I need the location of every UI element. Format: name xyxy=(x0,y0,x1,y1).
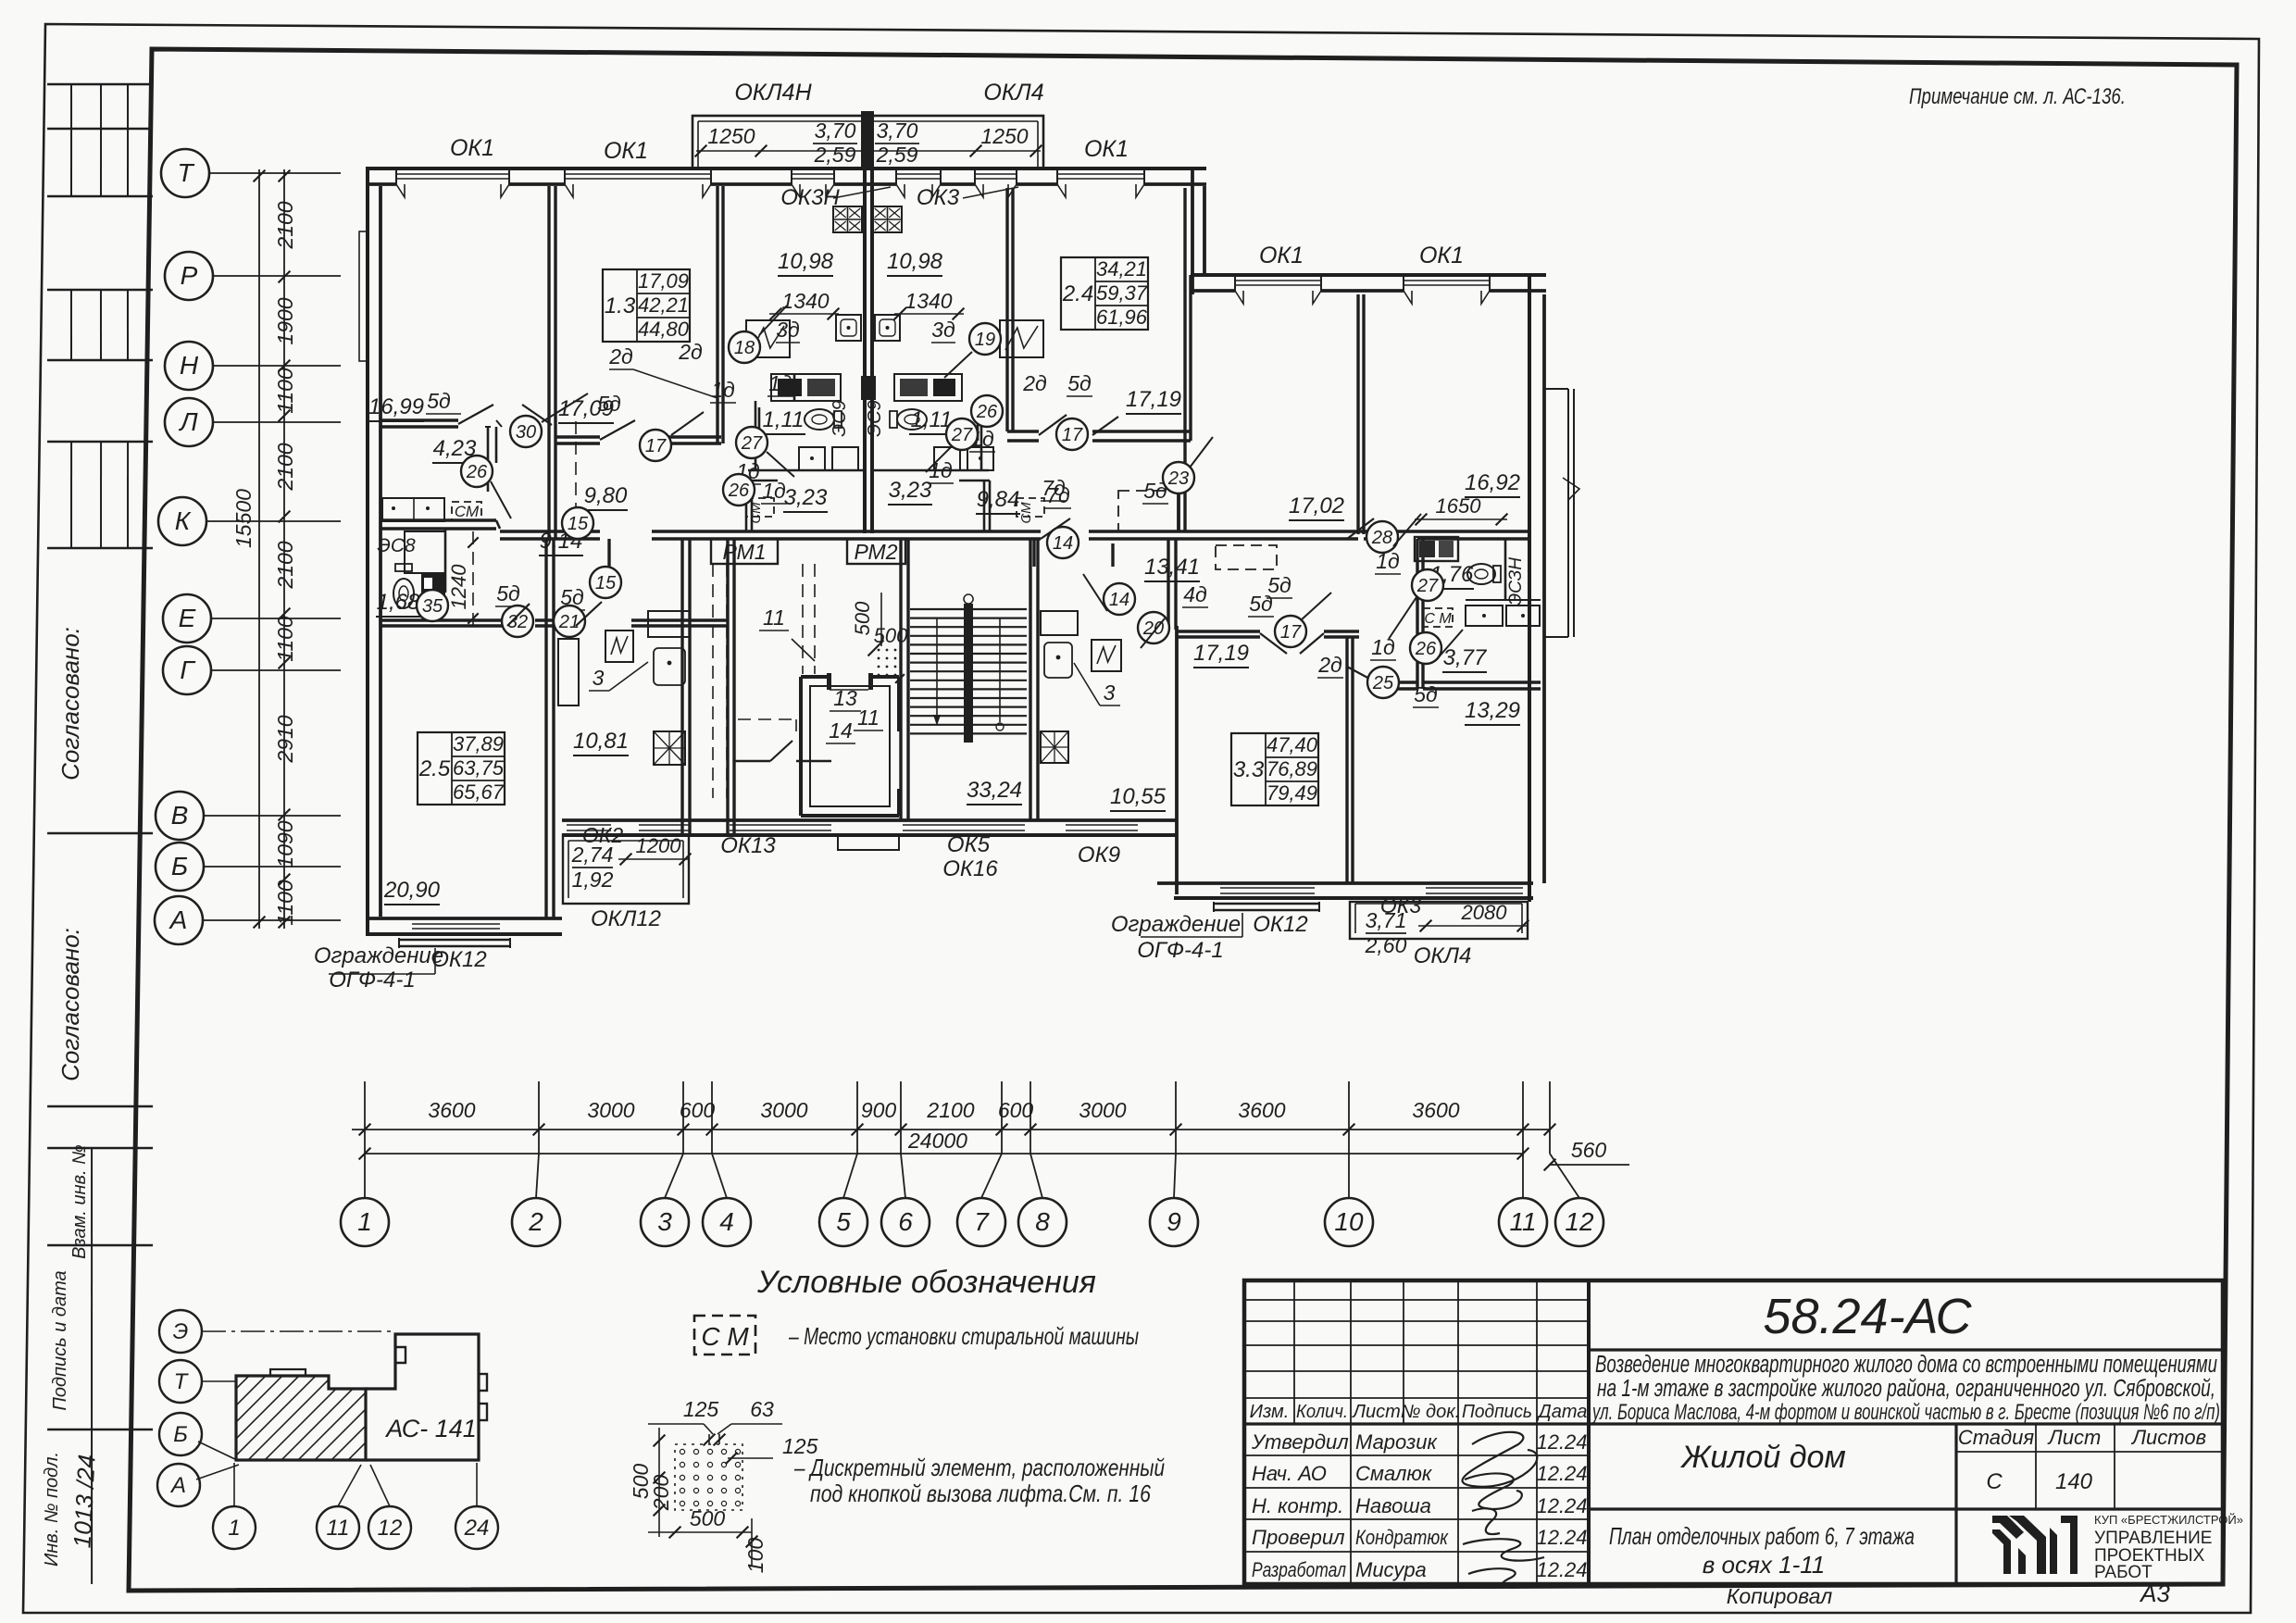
svg-text:3: 3 xyxy=(1104,680,1116,705)
СМ box center-right xyxy=(1017,498,1044,517)
svg-text:УПРАВЛЕНИЕ: УПРАВЛЕНИЕ xyxy=(2094,1529,2212,1548)
svg-text:В: В xyxy=(171,801,189,830)
svg-text:ОК9: ОК9 xyxy=(1078,843,1120,868)
СМ box left xyxy=(452,502,481,520)
svg-text:5д: 5д xyxy=(427,389,451,413)
svg-text:1340: 1340 xyxy=(905,289,952,313)
svg-text:1250: 1250 xyxy=(707,124,755,148)
circle mark 26 xyxy=(1410,632,1441,664)
svg-text:СМ: СМ xyxy=(748,502,764,524)
wall v1 xyxy=(547,186,550,539)
corridor wall lower xyxy=(380,618,507,621)
svg-text:12.24: 12.24 xyxy=(1536,1558,1587,1581)
kitchen counter row lower-left xyxy=(382,498,444,521)
svg-text:900: 900 xyxy=(861,1098,897,1122)
axis circle 5 xyxy=(819,1198,867,1246)
circle mark 28 xyxy=(1366,521,1398,553)
svg-text:30: 30 xyxy=(516,422,536,443)
svg-text:2100: 2100 xyxy=(273,443,297,491)
svg-text:3600: 3600 xyxy=(428,1098,475,1122)
svg-text:9: 9 xyxy=(1167,1207,1181,1236)
circle mark 15 xyxy=(562,507,593,539)
wall v3 (2.4 left) xyxy=(1005,188,1008,431)
svg-text:3,23: 3,23 xyxy=(889,478,932,503)
svg-text:500: 500 xyxy=(851,601,874,635)
axis circle 4 xyxy=(703,1198,751,1246)
svg-text:ЭС9: ЭС9 xyxy=(830,400,850,436)
svg-text:14: 14 xyxy=(1109,590,1129,610)
svg-text:3д: 3д xyxy=(931,318,955,342)
svg-text:2: 2 xyxy=(528,1207,543,1236)
svg-text:5: 5 xyxy=(836,1207,851,1236)
svg-text:1250: 1250 xyxy=(980,124,1028,148)
circle mark 26 xyxy=(461,456,493,487)
svg-text:500: 500 xyxy=(690,1506,726,1530)
legend washing machine symbol xyxy=(694,1316,755,1355)
svg-text:ОК1: ОК1 xyxy=(1259,243,1304,268)
svg-text:42,21: 42,21 xyxy=(638,293,689,317)
top exterior wall xyxy=(366,167,1206,170)
svg-text:3600: 3600 xyxy=(1412,1098,1459,1122)
axis circle Е xyxy=(163,594,211,643)
toilet ЭСЗН xyxy=(1467,564,1495,584)
svg-text:14: 14 xyxy=(829,718,853,743)
axis circle Т xyxy=(161,149,209,197)
axis circle 9 xyxy=(1150,1198,1198,1246)
svg-text:Р: Р xyxy=(181,261,198,290)
svg-text:24: 24 xyxy=(464,1516,490,1541)
svg-text:7: 7 xyxy=(974,1207,990,1236)
vestibule wall xyxy=(734,760,770,763)
bath lower cabinets xyxy=(799,447,825,470)
svg-text:1240: 1240 xyxy=(447,564,470,610)
wall v11 kitchen 10,55 right xyxy=(1167,539,1169,630)
svg-text:47,40: 47,40 xyxy=(1267,733,1318,756)
svg-text:3000: 3000 xyxy=(760,1098,807,1122)
axis circle 11 xyxy=(1499,1198,1547,1246)
wall v10 stairwell right xyxy=(1029,539,1031,820)
vent blocks xyxy=(833,206,862,232)
svg-text:– Дискретный элемент, располож: – Дискретный элемент, расположенный xyxy=(793,1454,1165,1481)
svg-text:С М: С М xyxy=(1424,611,1452,627)
svg-text:1,68: 1,68 xyxy=(377,590,420,615)
svg-text:600: 600 xyxy=(680,1098,716,1122)
area table 2.4 xyxy=(1061,257,1148,330)
wall h2 (17,09 bottom) xyxy=(555,435,600,438)
svg-text:С: С xyxy=(1986,1469,2003,1494)
svg-text:А3: А3 xyxy=(2139,1579,2170,1607)
staircase treads xyxy=(910,608,1027,610)
dim 1250 right xyxy=(870,150,1041,152)
left exterior wall xyxy=(366,167,369,935)
svg-text:1200: 1200 xyxy=(636,834,682,857)
middle bottom exterior wall xyxy=(562,818,1176,822)
svg-text:16,99: 16,99 xyxy=(368,394,424,419)
axis circle В xyxy=(156,792,204,840)
axis circle Л xyxy=(165,398,213,446)
circle mark 26 xyxy=(971,395,1003,427)
circle mark 17 xyxy=(1056,418,1088,450)
svg-text:1650: 1650 xyxy=(1436,494,1482,518)
central wall xyxy=(863,169,867,533)
svg-text:№ док.: № док. xyxy=(1401,1402,1460,1422)
svg-text:58.24-АС: 58.24-АС xyxy=(1763,1289,1972,1344)
svg-text:9,84: 9,84 xyxy=(977,487,1020,512)
circle mark 26 xyxy=(723,474,755,506)
svg-text:12.24: 12.24 xyxy=(1536,1526,1587,1549)
svg-text:1: 1 xyxy=(228,1516,240,1541)
area table 1.3 xyxy=(603,269,690,342)
circle mark 32 xyxy=(502,606,533,637)
svg-text:7д: 7д xyxy=(1046,483,1070,507)
svg-text:18: 18 xyxy=(734,338,755,358)
left dimension chain xyxy=(283,169,285,929)
dashed rect under 23 xyxy=(1118,491,1179,531)
bottom-left exterior wall xyxy=(366,917,562,920)
bath partitions center xyxy=(755,401,757,470)
svg-text:63,75: 63,75 xyxy=(453,756,505,780)
key axis circle 11 xyxy=(317,1506,359,1549)
circle mark 17 xyxy=(1275,616,1306,647)
svg-text:3,23: 3,23 xyxy=(784,485,828,510)
door 5д h1 xyxy=(458,405,493,424)
svg-text:ЭС9: ЭС9 xyxy=(865,400,885,436)
svg-text:3600: 3600 xyxy=(1238,1098,1285,1122)
svg-text:125: 125 xyxy=(683,1397,719,1421)
axis circle 8 xyxy=(1018,1198,1067,1246)
circle mark 23 xyxy=(1163,462,1194,493)
svg-text:А: А xyxy=(168,905,188,934)
area table 2.5 xyxy=(418,732,505,805)
svg-text:2,74: 2,74 xyxy=(571,843,614,867)
svg-text:ЭС8: ЭС8 xyxy=(377,535,416,556)
svg-text:560: 560 xyxy=(1571,1138,1607,1162)
svg-text:на 1-м этаже в застройке жилог: на 1-м этаже в застройке жилого района, … xyxy=(1597,1376,2215,1402)
axis circle 1 xyxy=(341,1198,389,1246)
axis circle К xyxy=(158,497,206,545)
svg-text:4: 4 xyxy=(719,1207,734,1236)
svg-text:Условные обозначения: Условные обозначения xyxy=(756,1265,1096,1300)
svg-text:140: 140 xyxy=(2055,1469,2093,1494)
left margin table strip xyxy=(26,84,172,1584)
wall stub below h1 right xyxy=(495,427,498,463)
wall v13 (3.3 right) xyxy=(1345,637,1348,883)
svg-text:1100: 1100 xyxy=(273,368,297,414)
svg-text:1100: 1100 xyxy=(273,616,297,662)
svg-text:26: 26 xyxy=(728,481,750,501)
elevator door ticks xyxy=(827,673,831,690)
svg-text:под кнопкой вызова лифта.См. п: под кнопкой вызова лифта.См. п. 16 xyxy=(810,1479,1151,1507)
svg-text:2д: 2д xyxy=(608,344,633,368)
svg-text:3,77: 3,77 xyxy=(1443,645,1488,670)
svg-text:С М: С М xyxy=(701,1322,749,1351)
circle mark 18 xyxy=(729,331,760,363)
svg-text:500: 500 xyxy=(874,624,908,647)
svg-text:12: 12 xyxy=(1565,1207,1594,1236)
circle mark 27 xyxy=(946,418,978,450)
svg-text:17: 17 xyxy=(1280,622,1302,643)
svg-text:17,09: 17,09 xyxy=(638,269,689,293)
РМ1 box xyxy=(711,539,778,564)
circle mark 15 xyxy=(590,567,621,598)
circle mark 30 xyxy=(510,416,542,447)
wall v6 xyxy=(544,539,547,918)
svg-text:Е: Е xyxy=(179,604,196,632)
svg-text:27: 27 xyxy=(951,425,973,445)
staircase handrail xyxy=(964,604,973,743)
wall h1 (16,99 bottom) xyxy=(381,418,458,421)
svg-text:59,37: 59,37 xyxy=(1096,281,1148,305)
right bay edge xyxy=(1567,389,1569,637)
stove X left xyxy=(654,731,685,765)
svg-text:79,49: 79,49 xyxy=(1267,781,1317,805)
svg-text:5д: 5д xyxy=(496,581,520,606)
svg-text:ОК12: ОК12 xyxy=(1253,912,1308,937)
svg-text:ОК1: ОК1 xyxy=(450,135,494,161)
dotted 500x500 pad xyxy=(878,649,897,677)
svg-text:Ограждение: Ограждение xyxy=(1111,912,1241,937)
svg-text:3000: 3000 xyxy=(587,1098,634,1122)
svg-text:Согласовано:: Согласовано: xyxy=(56,928,84,1081)
svg-text:12: 12 xyxy=(378,1516,403,1541)
svg-text:Разработал: Разработал xyxy=(1252,1558,1346,1581)
svg-text:РМ2: РМ2 xyxy=(854,540,897,564)
svg-text:11: 11 xyxy=(857,705,880,730)
svg-text:2,59: 2,59 xyxy=(876,143,918,167)
svg-text:ОК16: ОК16 xyxy=(942,856,998,881)
svg-text:Г: Г xyxy=(180,655,195,684)
svg-text:ОКЛ4: ОКЛ4 xyxy=(983,80,1043,106)
svg-text:Стадия: Стадия xyxy=(1958,1426,2035,1449)
svg-text:1д: 1д xyxy=(762,479,786,503)
svg-text:11: 11 xyxy=(327,1516,350,1541)
svg-text:ОКЛ12: ОКЛ12 xyxy=(591,906,661,931)
dashed rect 17,02 xyxy=(1216,545,1277,569)
svg-text:1д: 1д xyxy=(768,371,792,395)
svg-text:3000: 3000 xyxy=(1079,1098,1126,1122)
svg-text:ул. Бориса Маслова, 4-м фортом: ул. Бориса Маслова, 4-м фортом и воинско… xyxy=(1591,1400,2220,1425)
axis circle 6 xyxy=(881,1198,930,1246)
svg-text:в осях 1-11: в осях 1-11 xyxy=(1703,1551,1825,1579)
balcony ОК12 right xyxy=(1214,903,1319,905)
axis circle Н xyxy=(165,342,213,390)
dashed line 1240 xyxy=(472,531,474,626)
svg-text:2.5: 2.5 xyxy=(418,756,451,781)
СМ room right top xyxy=(1416,539,1418,689)
washer dark right xyxy=(1415,537,1458,561)
svg-text:Кондратюк: Кондратюк xyxy=(1355,1526,1449,1549)
svg-text:Подпись и дата: Подпись и дата xyxy=(50,1270,70,1410)
svg-text:СМ: СМ xyxy=(1018,502,1034,524)
svg-text:25: 25 xyxy=(1372,673,1394,693)
svg-text:Т: Т xyxy=(174,1369,190,1394)
svg-text:Нач. АО: Нач. АО xyxy=(1252,1462,1327,1485)
svg-text:1900: 1900 xyxy=(273,297,297,344)
right exterior wall xyxy=(1528,273,1531,902)
balcony ОКЛ4Н/ОКЛ4 top xyxy=(693,116,1043,169)
area table 3.3 xyxy=(1231,733,1318,805)
key axis circle Э xyxy=(159,1310,202,1353)
svg-text:Б: Б xyxy=(173,1422,188,1447)
svg-text:5д: 5д xyxy=(597,392,621,416)
svg-text:63: 63 xyxy=(750,1397,774,1421)
svg-text:5д: 5д xyxy=(1067,371,1092,395)
svg-text:1,11: 1,11 xyxy=(911,407,953,432)
circle mark 19 xyxy=(969,323,1001,355)
svg-text:Инв. № подл.: Инв. № подл. xyxy=(42,1452,62,1567)
room 3.3 top wall xyxy=(1177,630,1260,632)
toilet ЭС8 xyxy=(393,579,414,608)
svg-text:ОК1: ОК1 xyxy=(604,138,648,164)
svg-text:13,29: 13,29 xyxy=(1465,698,1520,723)
svg-text:Э: Э xyxy=(173,1319,189,1344)
svg-text:3,70: 3,70 xyxy=(815,119,856,143)
small walls above corridor near 3,23 xyxy=(745,481,748,531)
svg-text:23: 23 xyxy=(1167,468,1189,489)
stair arrows xyxy=(936,618,938,722)
svg-text:2910: 2910 xyxy=(273,715,297,763)
svg-text:27: 27 xyxy=(1416,576,1439,596)
svg-text:2д: 2д xyxy=(678,340,703,364)
svg-text:3: 3 xyxy=(657,1207,672,1236)
svg-text:34,21: 34,21 xyxy=(1096,257,1147,281)
svg-text:Н: Н xyxy=(180,351,199,380)
svg-text:10,98: 10,98 xyxy=(887,249,943,274)
svg-text:3: 3 xyxy=(593,666,605,690)
step wall main-wing xyxy=(1191,169,1194,294)
circle mark 27 xyxy=(736,427,767,458)
kitchen counters dark right xyxy=(894,374,962,401)
svg-text:Подпись: Подпись xyxy=(1462,1402,1532,1422)
svg-text:15: 15 xyxy=(595,573,617,593)
partition 4,23|СМ area xyxy=(487,427,490,492)
circle mark 17 xyxy=(640,430,671,461)
svg-text:1,92: 1,92 xyxy=(572,868,614,892)
svg-text:Колич.: Колич. xyxy=(1296,1402,1348,1422)
svg-text:11: 11 xyxy=(763,606,785,630)
svg-text:15: 15 xyxy=(568,514,589,534)
svg-text:ОКЛ4Н: ОКЛ4Н xyxy=(734,80,812,106)
sinks xyxy=(836,315,861,341)
svg-text:17,19: 17,19 xyxy=(1126,387,1181,412)
svg-text:24000: 24000 xyxy=(907,1129,967,1153)
svg-text:2100: 2100 xyxy=(926,1098,974,1122)
axis circle 3 xyxy=(641,1198,689,1246)
РМ2 box xyxy=(847,539,905,564)
svg-text:1д: 1д xyxy=(929,458,953,482)
fridge boxes zigzag xyxy=(746,320,790,357)
svg-text:14: 14 xyxy=(1053,533,1073,554)
wall v9 stairwell left xyxy=(899,539,902,820)
ЭСЗН partition right xyxy=(1504,539,1507,600)
svg-text:ОК13: ОК13 xyxy=(720,833,776,858)
wall v5 (17,02|16,92) xyxy=(1356,294,1359,534)
svg-text:5д: 5д xyxy=(1414,682,1438,706)
svg-text:17: 17 xyxy=(1062,425,1083,445)
circle mark 14 xyxy=(1104,583,1135,615)
svg-text:6: 6 xyxy=(898,1207,913,1236)
svg-text:10: 10 xyxy=(1334,1207,1364,1236)
key axis circle 24 xyxy=(455,1506,498,1549)
svg-text:65,67: 65,67 xyxy=(453,780,505,804)
svg-text:Лист: Лист xyxy=(1351,1402,1401,1422)
svg-text:10,81: 10,81 xyxy=(573,729,629,754)
svg-text:ОК5: ОК5 xyxy=(947,832,991,857)
svg-text:100: 100 xyxy=(743,1538,767,1574)
svg-text:Л: Л xyxy=(178,407,198,436)
svg-text:К: К xyxy=(175,506,192,535)
logo управление проектных работ xyxy=(1992,1516,2078,1574)
circle mark 20 xyxy=(1138,612,1169,643)
axis circle Г xyxy=(163,646,211,694)
key plan hatched block xyxy=(236,1376,366,1460)
svg-text:3д: 3д xyxy=(776,318,800,342)
title block xyxy=(1244,1280,2223,1584)
right wing top wall xyxy=(1191,273,1546,277)
svg-text:11: 11 xyxy=(1509,1207,1536,1236)
circle mark 27 xyxy=(1412,569,1443,601)
key axis circle 12 xyxy=(368,1506,411,1549)
svg-text:А: А xyxy=(169,1473,186,1498)
svg-text:20: 20 xyxy=(1142,618,1164,639)
svg-text:76,89: 76,89 xyxy=(1267,757,1317,780)
svg-text:9,80: 9,80 xyxy=(584,483,628,508)
svg-text:3.3: 3.3 xyxy=(1233,757,1265,782)
balcony ОКЛ12 xyxy=(563,835,689,904)
svg-text:19: 19 xyxy=(975,330,995,350)
svg-text:Утвердил: Утвердил xyxy=(1251,1430,1349,1454)
svg-text:Лист: Лист xyxy=(2047,1426,2102,1449)
svg-text:27: 27 xyxy=(741,433,763,454)
wall v4 (2.4 right) xyxy=(1183,188,1186,531)
circle mark 14 xyxy=(1047,527,1079,558)
svg-text:1340: 1340 xyxy=(781,289,829,313)
svg-text:Т: Т xyxy=(177,158,194,187)
svg-text:1090: 1090 xyxy=(273,820,297,868)
svg-text:ОК3Н: ОК3Н xyxy=(780,185,840,210)
svg-text:Мисура: Мисура xyxy=(1355,1558,1427,1581)
svg-text:12.24: 12.24 xyxy=(1536,1430,1587,1454)
svg-text:26: 26 xyxy=(976,402,998,422)
svg-text:Навоша: Навоша xyxy=(1355,1494,1431,1517)
bottom axis circles xyxy=(364,1081,366,1154)
svg-text:Изм.: Изм. xyxy=(1250,1402,1290,1422)
svg-text:1: 1 xyxy=(357,1207,372,1236)
svg-text:13,41: 13,41 xyxy=(1144,555,1200,580)
svg-text:АС- 141: АС- 141 xyxy=(384,1415,477,1442)
svg-text:2,59: 2,59 xyxy=(814,143,856,167)
kitchen counters 10,81 xyxy=(558,639,579,705)
svg-text:– Место установки стиральной м: – Место установки стиральной машины xyxy=(788,1322,1139,1350)
entrance porch xyxy=(838,835,899,850)
key axis circle Б xyxy=(159,1413,202,1455)
svg-text:17,19: 17,19 xyxy=(1193,641,1249,666)
svg-text:Согласовано:: Согласовано: xyxy=(56,627,84,780)
svg-text:26: 26 xyxy=(1415,639,1437,659)
toilets center xyxy=(805,409,834,430)
svg-text:16,92: 16,92 xyxy=(1465,470,1520,495)
key plan building outline xyxy=(366,1334,479,1460)
svg-text:10,98: 10,98 xyxy=(778,249,834,274)
key plan leaders xyxy=(202,1330,395,1332)
signatures scribble xyxy=(1463,1432,1538,1487)
svg-text:КУП «БРЕСТЖИЛСТРОЙ»: КУП «БРЕСТЖИЛСТРОЙ» xyxy=(2094,1513,2243,1527)
svg-text:10,55: 10,55 xyxy=(1110,784,1167,809)
svg-text:Возведение многоквартирного жи: Возведение многоквартирного жилого дома … xyxy=(1595,1352,2217,1378)
svg-text:2100: 2100 xyxy=(273,201,297,249)
wall v7 (10,81 right) xyxy=(680,539,683,835)
svg-text:СМ: СМ xyxy=(455,503,480,520)
